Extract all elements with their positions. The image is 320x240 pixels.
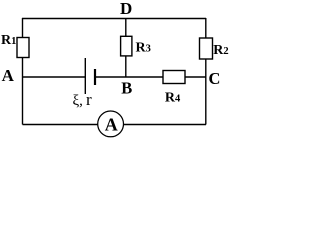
svg-text:ξ,: ξ, — [73, 93, 83, 109]
wire: middle branch lead, D down to R3 — [125, 19, 127, 37]
wire: middle rail, R4 to node C — [185, 76, 206, 78]
battery cell plate: long (positive) — [84, 58, 86, 94]
svg-text:B: B — [121, 78, 132, 97]
battery cell plate: short thick (negative) — [94, 69, 96, 85]
wire: bottom rail, ammeter to right corner — [124, 124, 207, 126]
wire: top rail from left corner to right corner through node D — [22, 18, 206, 20]
resistor R1 — [17, 38, 29, 58]
wire: left branch, top rail down to R1 — [22, 18, 24, 38]
wire: right branch, R2 down through node C to bottom rail — [205, 59, 207, 125]
svg-text:A: A — [2, 66, 15, 85]
resistor R4 — [163, 71, 185, 84]
svg-text:R3: R3 — [136, 40, 151, 55]
svg-text:C: C — [209, 69, 221, 88]
wire: middle rail, node A to battery positive plate — [23, 76, 86, 78]
resistor R3 — [121, 36, 132, 56]
wire: bottom rail, left corner to ammeter — [23, 124, 99, 126]
svg-text:R2: R2 — [213, 43, 228, 58]
svg-text:R1: R1 — [1, 33, 16, 48]
wire: middle rail, battery through node B to R4 — [95, 76, 164, 78]
wire: middle branch lead, R3 down to node B — [125, 56, 127, 78]
wire: left branch, R1 down through node A to bottom rail — [22, 58, 24, 125]
svg-text:D: D — [120, 0, 132, 18]
wire: right branch, top rail down to R2 — [205, 18, 207, 38]
svg-text:A: A — [105, 115, 118, 135]
svg-text:r: r — [86, 90, 92, 109]
ammeter A1 (circle with A) — [98, 111, 124, 137]
resistor R2 — [200, 38, 213, 59]
svg-text:R4: R4 — [165, 90, 181, 105]
